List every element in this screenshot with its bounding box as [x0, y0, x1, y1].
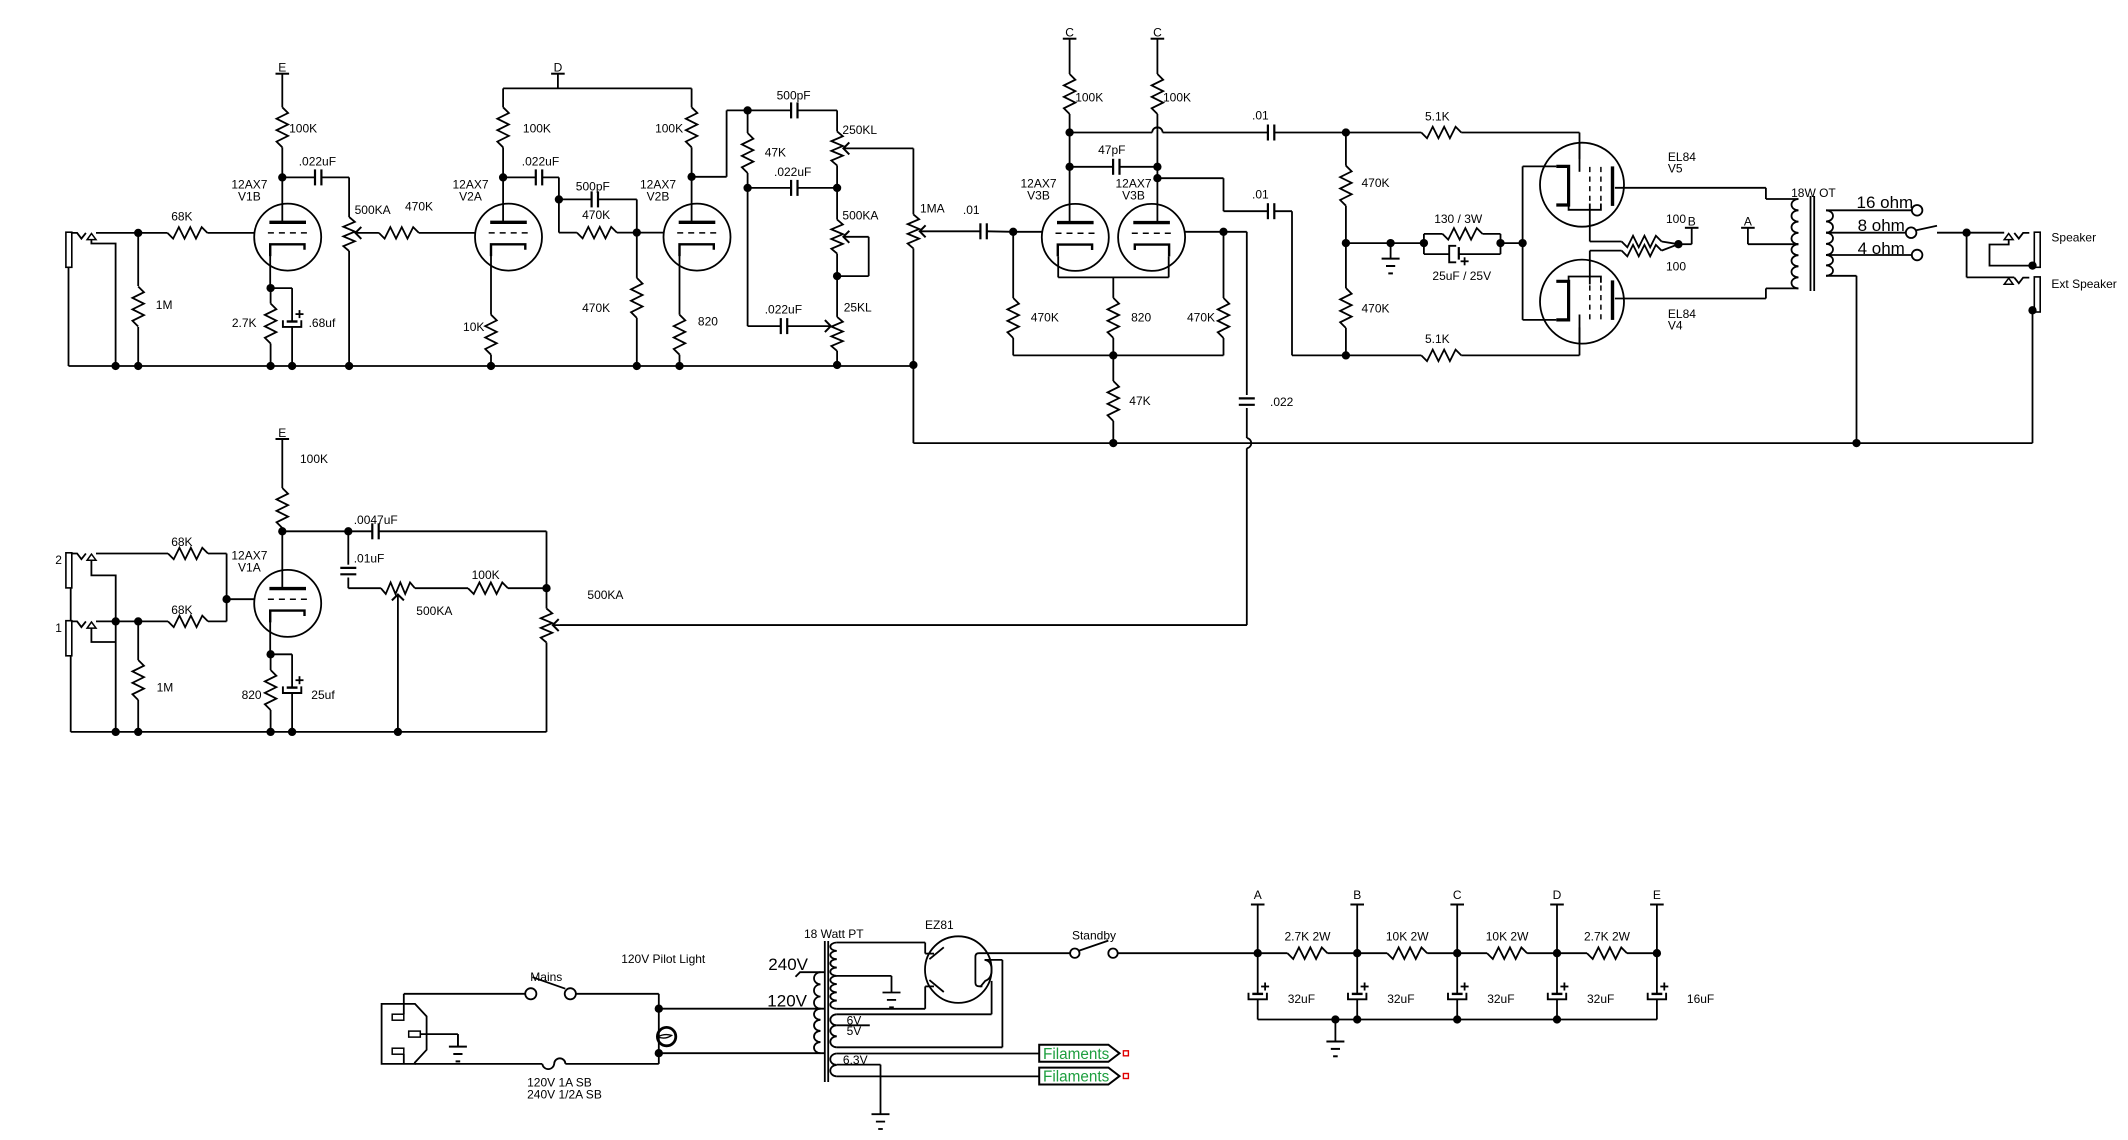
wire fuse line	[415, 1053, 659, 1069]
svg-text:8 ohm: 8 ohm	[1858, 216, 1905, 235]
triode V3B-b 12AX7 (mirrored)	[1118, 204, 1185, 271]
label .022uF (tone mid)	[774, 165, 811, 179]
junction jack1 tip/rail	[112, 617, 120, 625]
wire 240V tap	[796, 972, 825, 977]
label 5.1K (V4 grid)	[1425, 332, 1450, 346]
resistor 470K (to V2A grid)	[379, 227, 475, 239]
V2B cathode lead	[679, 244, 681, 314]
label 500KA (volume ch2)	[587, 588, 623, 602]
junction ground tap	[1386, 239, 1394, 247]
rectifier EZ81	[925, 936, 992, 1003]
transformer PT primary	[814, 972, 821, 1053]
svg-text:C: C	[1065, 26, 1074, 40]
pilot lamp	[657, 1009, 675, 1053]
label 250KL	[842, 123, 877, 137]
wire plug neutral	[403, 1054, 405, 1064]
svg-text:E: E	[278, 426, 286, 440]
node B tag (supply)	[1350, 888, 1364, 953]
V4 plate wire	[1615, 288, 1799, 298]
svg-text:V2A: V2A	[459, 189, 482, 203]
wire to 500pF node	[558, 177, 560, 199]
svg-text:C: C	[1453, 888, 1462, 902]
label Speaker	[2051, 231, 2096, 245]
junction plate/.01 left	[1065, 128, 1073, 136]
label jack 2	[55, 553, 62, 567]
svg-text:Ext Speaker: Ext Speaker	[2051, 277, 2116, 291]
EZ81 anode lower	[929, 980, 943, 992]
svg-text:2.7K 2W: 2.7K 2W	[1284, 930, 1331, 944]
junction pilot top	[655, 1005, 663, 1013]
wire to V1A grid	[227, 598, 255, 600]
resistor 10K 2W (dropper)	[1358, 947, 1457, 959]
resistor 100K (V2A plate)	[497, 88, 509, 177]
wire bias mid to cathode node	[1346, 242, 1424, 244]
svg-text:68K: 68K	[171, 209, 192, 223]
junction cathode rail	[1518, 239, 1526, 247]
label fuse rating	[527, 1075, 602, 1101]
junction tone mid-right	[833, 184, 841, 192]
V2A cathode lead	[490, 244, 492, 314]
junction 500pF node	[555, 195, 563, 203]
junction V2B plate	[687, 173, 695, 181]
label 1M	[156, 298, 173, 312]
label 68K (input 2)	[171, 535, 192, 549]
svg-text:E: E	[278, 61, 286, 75]
transformer 18W OT secondary	[1826, 210, 1833, 275]
svg-text:D: D	[554, 61, 563, 75]
svg-text:C: C	[1153, 26, 1162, 40]
svg-text:47K: 47K	[1129, 394, 1150, 408]
svg-text:16uF: 16uF	[1687, 992, 1714, 1006]
resistor 820 (V1A cathode)	[265, 654, 277, 736]
svg-text:.01: .01	[963, 203, 980, 217]
svg-text:100K: 100K	[289, 122, 317, 136]
ground return wire	[913, 310, 2032, 443]
svg-text:B: B	[1688, 215, 1696, 229]
svg-text:18 Watt PT: 18 Watt PT	[804, 927, 864, 941]
svg-text:100K: 100K	[300, 452, 328, 466]
capacitor .022uF (cut)	[748, 188, 788, 334]
resistor 10K 2W (dropper)	[1457, 947, 1556, 959]
junction node C	[1453, 949, 1461, 957]
potentiometer 500KA (bass)	[831, 188, 868, 276]
label 8 ohm	[1858, 216, 1905, 235]
junction tone mid-left	[743, 184, 751, 192]
wire HV center tap	[837, 976, 892, 993]
svg-text:10K 2W: 10K 2W	[1486, 930, 1529, 944]
resistor 68K (input 1)	[138, 599, 226, 627]
ground (HV center tap)	[883, 993, 901, 1008]
label .022uF (V1B coupling)	[299, 154, 336, 168]
label .022 (NFB)	[1270, 395, 1294, 409]
label 18 Watt PT	[804, 927, 864, 941]
junction cathode-net left	[1420, 239, 1428, 247]
V5 grid entry	[1579, 133, 1581, 159]
capacitor 25uf (V1A bypass)	[283, 654, 304, 736]
Filaments tag 1	[1039, 1045, 1128, 1063]
wire to cathode rail	[1501, 242, 1523, 244]
svg-text:1: 1	[55, 621, 62, 635]
ground (heater CT)	[872, 1114, 890, 1129]
jack Ext Speaker	[2004, 277, 2040, 312]
resistor 2.7K (V1B cathode)	[265, 288, 277, 370]
label Mains	[530, 970, 562, 984]
jack shorting contact to ground rail	[91, 240, 115, 366]
wire cathode to bypass cap	[271, 287, 293, 289]
triode V1A 12AX7	[254, 570, 321, 637]
potentiometer 500KA (volume ch2)	[541, 588, 1247, 732]
svg-text:25uf: 25uf	[311, 688, 335, 702]
wire V1A plate node	[282, 530, 348, 532]
node D tag (supply)	[1550, 888, 1564, 953]
svg-text:820: 820	[698, 314, 718, 328]
jack1 shorting contact	[91, 628, 115, 642]
resistor 130/3W (shared cathode)	[1424, 228, 1501, 243]
junction cathode-net right	[1496, 239, 1504, 247]
junction plate/.01 right	[1153, 174, 1161, 182]
junction 1M node	[134, 617, 142, 625]
svg-text:V3B: V3B	[1027, 189, 1050, 203]
tap 6.3V center	[837, 1065, 881, 1115]
EZ81 heater pin wires	[985, 960, 1003, 1047]
label 25KL	[844, 301, 872, 315]
wire HV bottom to EZ81	[837, 986, 934, 1008]
resistor 470K (V2B grid leak)	[631, 233, 643, 371]
terminal 8 ohm	[1906, 227, 1917, 238]
label Ext Speaker	[2051, 277, 2116, 291]
label 68K	[171, 209, 192, 223]
label 32uF (D)	[1587, 992, 1614, 1006]
label 25uF / 25V	[1432, 269, 1491, 283]
resistor 68K (grid stopper V1B)	[138, 227, 254, 239]
svg-text:.01: .01	[1252, 188, 1269, 202]
ground (filter rail)	[1326, 1020, 1344, 1057]
resistor 5.1K (V4 grid)	[1346, 350, 1580, 362]
wire V2B plate to tone stack	[692, 110, 748, 176]
junction V1A cathode	[266, 650, 274, 658]
capacitor .022 (NFB)	[560, 232, 1255, 625]
label 500pF (treble)	[777, 89, 811, 103]
resistor 100K (V1A plate)	[277, 439, 289, 531]
capacitor .022uF (tone mid)	[748, 180, 838, 196]
wire PI left plate to .01	[1070, 127, 1268, 132]
label 820 (V1A cathode)	[242, 688, 262, 702]
V1A cathode lead	[269, 611, 271, 655]
svg-text:V2B: V2B	[647, 189, 670, 203]
svg-text:500KA: 500KA	[355, 203, 391, 217]
label Standby	[1072, 929, 1116, 943]
svg-text:.01: .01	[1252, 109, 1269, 123]
label 500pF (bright)	[576, 180, 610, 194]
svg-text:V1B: V1B	[238, 189, 261, 203]
junction V2A plate	[499, 173, 507, 181]
junction V1A plate	[278, 527, 286, 535]
resistor 10K (V2A cathode)	[485, 315, 497, 370]
junction plate/47pF left	[1065, 163, 1073, 171]
label 470K (to V2A grid)	[405, 200, 433, 214]
junction node B	[1353, 949, 1361, 957]
label 2.7K 2W	[1284, 930, 1331, 944]
label 10K 2W	[1386, 930, 1429, 944]
label 12AX7 V1B	[231, 177, 267, 203]
transformer 18W OT primary	[1792, 199, 1799, 288]
svg-text:100: 100	[1666, 212, 1686, 226]
svg-text:470K: 470K	[1362, 176, 1390, 190]
EZ81 anode upper	[929, 947, 943, 959]
pentode V4 EL84 (inverted)	[1540, 260, 1624, 345]
V4 screen lead	[1590, 251, 1622, 285]
junction node A	[1254, 949, 1262, 957]
svg-text:2.7K: 2.7K	[232, 316, 257, 330]
resistor 100 (V4 screen)	[1622, 244, 1679, 256]
V2B plate lead	[691, 177, 693, 223]
capacitor 32uF (node B)	[1348, 953, 1369, 1019]
junction bass-bottom	[833, 272, 841, 280]
transformer PT HV winding	[830, 943, 837, 1009]
svg-text:32uF: 32uF	[1487, 992, 1514, 1006]
svg-text:240V: 240V	[768, 955, 808, 974]
svg-text:.022uF: .022uF	[299, 154, 336, 168]
node A tag (OT center tap)	[1741, 215, 1798, 245]
svg-text:V3B: V3B	[1122, 189, 1145, 203]
label 5V	[847, 1024, 862, 1038]
label 10K	[463, 320, 484, 334]
svg-text:100: 100	[1666, 260, 1686, 274]
junction ch2 sum	[542, 584, 550, 592]
label 100K (V3B-b plate)	[1163, 90, 1191, 104]
svg-text:100K: 100K	[1163, 90, 1191, 104]
label EL84 V5	[1668, 150, 1696, 176]
shorting rail to bus	[112, 621, 120, 736]
label 32uF (A)	[1288, 992, 1315, 1006]
EZ81 heater	[980, 960, 991, 987]
svg-text:V1A: V1A	[238, 560, 261, 574]
wire 6.3V bottom lead	[837, 1075, 1039, 1077]
wire jack1 tip	[96, 620, 138, 622]
wire sum up	[546, 531, 548, 588]
svg-text:470K: 470K	[1362, 302, 1390, 316]
wire 16 ohm tap	[1826, 209, 1912, 211]
label .68uf	[309, 316, 336, 330]
junction pilot bottom	[655, 1049, 663, 1057]
label jack 1	[55, 621, 62, 635]
label .01 (to V4)	[1252, 188, 1269, 202]
junction speaker sleeve	[2028, 261, 2036, 269]
svg-text:100K: 100K	[523, 122, 551, 136]
wire jack2 tip	[96, 553, 168, 555]
potentiometer 500KA (volume ch1)	[343, 177, 379, 370]
label 500KA (volume ch1)	[355, 203, 391, 217]
junction V1A grid	[222, 595, 230, 603]
svg-text:1MA: 1MA	[920, 202, 945, 216]
label 470K (V2A to V2B)	[582, 208, 610, 222]
V3B-b plate lead	[1156, 129, 1158, 223]
label 120V	[767, 992, 807, 1011]
node junction (jack/1M/68K)	[134, 229, 142, 237]
wire 8 ohm tap	[1826, 232, 1906, 234]
capacitor .01 (PI input)	[980, 223, 1013, 239]
junction speaker node	[1962, 229, 1970, 237]
triode V3B-a 12AX7	[1042, 204, 1109, 271]
svg-text:A: A	[1254, 888, 1262, 902]
capacitor 32uF (node C)	[1448, 953, 1469, 1019]
svg-text:V4: V4	[1668, 319, 1683, 333]
capacitor 16uF (node E)	[1648, 953, 1669, 1019]
label 470K (bias lower)	[1362, 302, 1390, 316]
resistor 47K (tone)	[742, 110, 754, 187]
PI bias rail	[1013, 351, 1223, 359]
junction plate/47pF right	[1153, 163, 1161, 171]
wire PI right plate to .01	[1157, 178, 1267, 211]
wire 6.3V top lead	[837, 1053, 1039, 1055]
wire to speaker jack	[1967, 232, 2005, 234]
node E tag (V1A)	[276, 426, 290, 440]
svg-text:470K: 470K	[582, 301, 610, 315]
svg-text:.022uF: .022uF	[774, 165, 811, 179]
transformer PT 6V/5V winding	[830, 1014, 837, 1047]
svg-text:Standby: Standby	[1072, 929, 1116, 943]
capacitor .01uF	[340, 531, 381, 588]
svg-text:25KL: 25KL	[844, 301, 872, 315]
ground (mains earth)	[449, 1034, 467, 1061]
EZ81 cathode	[975, 953, 982, 986]
node B tag	[1678, 215, 1698, 245]
resistor 100 (V5 screen)	[1622, 236, 1679, 248]
resistor 2.7K 2W (dropper)	[1258, 947, 1357, 959]
wire switch to pilot	[576, 994, 659, 1009]
label 18W OT	[1791, 186, 1836, 200]
svg-text:B: B	[1353, 888, 1361, 902]
resistor 100K (V3B-b plate)	[1152, 39, 1164, 129]
transformer 18W OT core	[1811, 196, 1815, 291]
label 47K (tone)	[765, 145, 786, 159]
node E tag (top)	[276, 61, 290, 75]
potentiometer 500KA (tone ch2)	[381, 582, 415, 736]
junction node E	[1653, 949, 1661, 957]
junction bias mid	[1342, 239, 1350, 247]
label 130 / 3W	[1434, 212, 1483, 226]
svg-text:32uF: 32uF	[1587, 992, 1614, 1006]
terminal 4 ohm	[1912, 250, 1923, 261]
wire 5V bottom lead	[837, 1046, 1003, 1048]
V1A plate lead	[281, 531, 283, 588]
label .022uF (cut)	[765, 302, 802, 316]
jack sleeve to ground bus	[68, 267, 70, 366]
label 240V	[768, 955, 808, 974]
svg-text:Filaments: Filaments	[1043, 1046, 1110, 1063]
label 470K (bias upper)	[1362, 176, 1390, 190]
AC plug (IEC inlet)	[382, 1004, 427, 1064]
label 47K (PI tail)	[1129, 394, 1150, 408]
junction tone stack top	[743, 106, 751, 114]
input jack (V1B channel)	[66, 232, 96, 267]
wire 4 ohm tap	[1826, 254, 1912, 256]
svg-text:25uF / 25V: 25uF / 25V	[1432, 269, 1491, 283]
filter ground rail	[1258, 1015, 1657, 1023]
wire to V3B grid left	[1013, 231, 1042, 233]
label 6.3V	[843, 1053, 868, 1067]
node C tag (supply)	[1450, 888, 1464, 953]
label .01uF	[354, 551, 385, 565]
label 820 (PI cathode)	[1131, 310, 1151, 324]
svg-text:.022uF: .022uF	[765, 302, 802, 316]
label 4 ohm	[1858, 239, 1905, 258]
node E tag (supply)	[1650, 888, 1664, 953]
svg-text:18W OT: 18W OT	[1791, 186, 1836, 200]
resistor 470K (PI left grid)	[1007, 232, 1019, 356]
capacitor .0047uF	[348, 523, 546, 539]
svg-text:820: 820	[1131, 310, 1151, 324]
triode V1B 12AX7	[254, 204, 321, 271]
svg-text:5V: 5V	[847, 1024, 862, 1038]
resistor 5.1K (V5 grid)	[1346, 127, 1580, 139]
OT secondary common	[1826, 276, 1857, 443]
junction shorting rail on bus	[111, 362, 119, 370]
wire V3B-b grid	[1185, 231, 1247, 233]
svg-text:500pF: 500pF	[777, 89, 811, 103]
EL84 cathode rail	[1523, 166, 1557, 320]
capacitor .022uF (V1B coupling)	[282, 169, 349, 185]
AC plug pin E	[409, 1031, 421, 1037]
svg-text:100K: 100K	[472, 568, 500, 582]
label 47pF	[1098, 143, 1125, 157]
svg-text:100K: 100K	[1075, 90, 1103, 104]
wire plug line to switch	[404, 994, 525, 1014]
input jack 1	[66, 621, 96, 656]
label .0047uF	[354, 513, 398, 527]
junction node D	[1553, 949, 1561, 957]
V5 screen lead	[1590, 204, 1622, 242]
AC plug pin N	[392, 1048, 404, 1054]
resistor 1M (input 1 grid leak)	[132, 621, 144, 736]
resistor 68K (input 2)	[168, 548, 227, 599]
wire 250KL wiper to 1MA top	[912, 148, 914, 214]
label 820 (V2B cathode)	[698, 314, 718, 328]
svg-text:V5: V5	[1668, 162, 1683, 176]
transformer PT 6.3V winding	[830, 1054, 837, 1077]
svg-text:470K: 470K	[582, 208, 610, 222]
resistor 820 (V2B cathode)	[674, 315, 686, 370]
V5 plate wire	[1615, 188, 1799, 199]
svg-text:470K: 470K	[405, 200, 433, 214]
label 500KA (bass)	[842, 209, 878, 223]
svg-text:1M: 1M	[156, 298, 173, 312]
resistor 100K (V3B-a plate)	[1064, 39, 1076, 133]
svg-text:500KA: 500KA	[416, 604, 452, 618]
tap 6V	[837, 1024, 870, 1026]
resistor 470K (bias upper)	[1340, 133, 1352, 244]
svg-text:240V 1/2A SB: 240V 1/2A SB	[527, 1088, 602, 1102]
label .01 (PI input)	[963, 203, 980, 217]
svg-text:68K: 68K	[171, 535, 192, 549]
terminal 16 ohm	[1912, 205, 1923, 216]
label 100K (V1A plate)	[300, 452, 328, 466]
resistor 470K (bias lower)	[1340, 243, 1352, 355]
label 16 ohm	[1857, 193, 1914, 212]
junction .01uF tap	[344, 527, 352, 535]
label 1M (input 1)	[157, 680, 174, 694]
svg-text:.022: .022	[1270, 395, 1294, 409]
potentiometer 1MA (master)	[908, 214, 981, 369]
svg-text:130 / 3W: 130 / 3W	[1434, 212, 1483, 226]
svg-text:100K: 100K	[655, 122, 683, 136]
label 68K (input 1)	[171, 603, 192, 617]
capacitor .022uF (V2A coupling)	[503, 169, 559, 185]
capacitor 32uF (node A)	[1249, 953, 1270, 1019]
svg-text:Speaker: Speaker	[2051, 231, 2096, 245]
label 5.1K (V5 grid)	[1425, 109, 1450, 123]
V1B cathode lead	[269, 244, 271, 288]
